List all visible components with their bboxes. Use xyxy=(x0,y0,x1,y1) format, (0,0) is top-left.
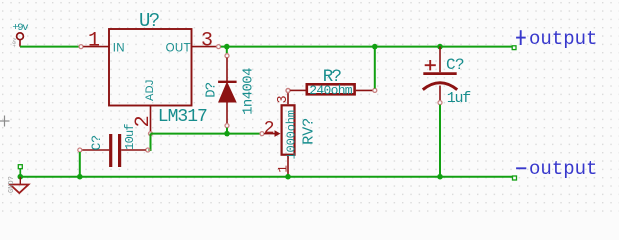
svg-text:+9v: +9v xyxy=(11,37,18,48)
junction OUT/C? xyxy=(437,44,443,50)
svg-text:IN: IN xyxy=(113,43,125,55)
power flag stub xyxy=(18,165,22,177)
svg-text:output: output xyxy=(529,158,597,180)
pin 1 of U? xyxy=(79,30,109,53)
wire ADJ to C? 10uf xyxy=(149,134,151,150)
svg-text:LM317: LM317 xyxy=(158,107,207,127)
svg-text:2: 2 xyxy=(264,119,275,139)
svg-text:C?: C? xyxy=(446,56,464,74)
svg-text:1: 1 xyxy=(276,165,291,173)
wire C? 1uf to bottom rail xyxy=(439,105,441,177)
potentiometer RV? xyxy=(260,89,318,177)
junction bottom/gnd xyxy=(18,174,24,180)
sheet marker cross xyxy=(0,116,10,127)
capacitor C? 10uf xyxy=(78,124,150,167)
svg-text:U?: U? xyxy=(139,10,159,32)
svg-text:D?: D? xyxy=(203,82,219,98)
pin 3 of U? xyxy=(192,30,221,53)
junction ADJ/diode xyxy=(224,131,230,137)
label -output xyxy=(513,158,598,180)
svg-text:output: output xyxy=(529,28,597,50)
regulator U? LM317 body xyxy=(109,10,207,127)
bottom rail wire xyxy=(20,176,512,178)
svg-text:R?: R? xyxy=(323,67,342,87)
svg-text:GND?: GND? xyxy=(8,176,16,193)
wire C? 10uf to bottom rail xyxy=(79,152,81,177)
wire ADJ net xyxy=(151,133,261,135)
wire R? to OUT rail xyxy=(374,47,376,89)
svg-text:OUT: OUT xyxy=(166,43,191,55)
pin 2 wiper xyxy=(260,132,264,136)
diode D? 1n4004 xyxy=(203,47,256,134)
svg-text:1uf: 1uf xyxy=(447,90,471,107)
svg-text:1000ohm: 1000ohm xyxy=(285,110,299,159)
capacitor C? 1uf xyxy=(423,47,471,107)
wire OUT rail xyxy=(221,46,512,48)
power port +9V xyxy=(11,22,28,48)
svg-text:1n4004: 1n4004 xyxy=(241,68,257,115)
pin 1 bottom xyxy=(287,156,289,177)
label +output xyxy=(512,28,597,50)
svg-text:ADJ: ADJ xyxy=(144,79,156,101)
svg-text:C?: C? xyxy=(89,135,104,150)
junction bottom/RV1 xyxy=(285,174,291,180)
junction OUT/diode xyxy=(224,44,230,50)
wire +9v to U1 pin1 xyxy=(20,46,79,48)
junction bottom/C1uf xyxy=(437,174,443,180)
resistor R? 240ohm xyxy=(286,67,377,98)
junction bottom/C10uf xyxy=(77,174,83,180)
svg-text:3: 3 xyxy=(201,30,213,53)
svg-text:3: 3 xyxy=(276,95,291,103)
ground symbol xyxy=(8,176,29,193)
svg-text:10uf: 10uf xyxy=(123,124,137,150)
svg-text:RV?: RV? xyxy=(301,118,318,145)
pin 3 top xyxy=(287,93,289,104)
svg-text:1: 1 xyxy=(88,30,100,53)
pin 2 of U? (ADJ) xyxy=(132,106,155,136)
junction OUT/R? xyxy=(372,44,378,50)
